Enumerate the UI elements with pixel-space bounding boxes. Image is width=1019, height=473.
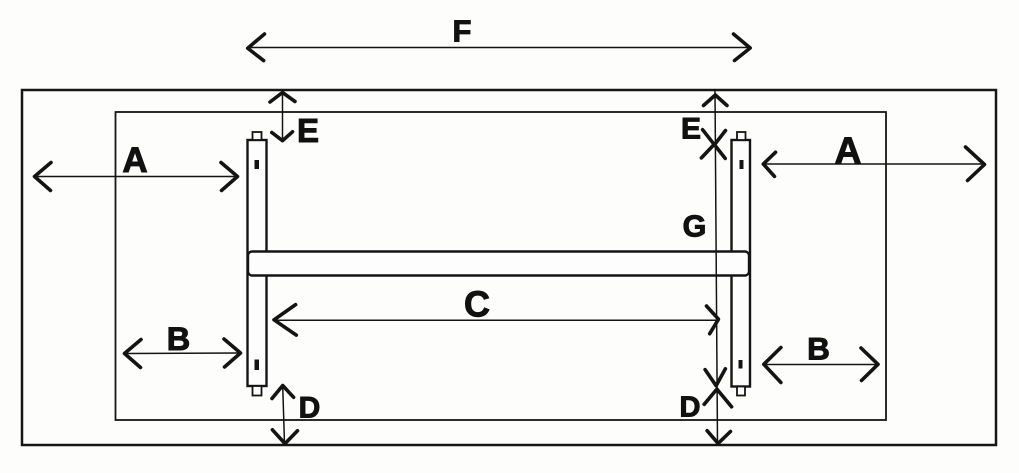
dimension F shaft (248, 47, 750, 49)
dimension E right up arrowhead (704, 95, 728, 106)
dimension C left arrowhead (274, 305, 296, 336)
dimension B right right arrowhead (861, 348, 878, 381)
dimension E left up arrowhead (270, 93, 295, 103)
dimension A right right arrowhead (966, 147, 985, 181)
svg-text:E: E (681, 112, 701, 145)
left rail body (248, 140, 267, 386)
svg-text:E: E (297, 112, 319, 149)
dimension F right arrowhead (734, 34, 751, 61)
dimension B left right arrowhead (224, 339, 241, 367)
dimension C shaft (274, 319, 719, 321)
dimension G down arrowhead crossing (705, 369, 725, 386)
dimension B right left arrowhead (764, 348, 781, 383)
dimension B right shaft (764, 364, 879, 366)
dimension E left down arrowhead (272, 132, 293, 141)
right dimension line shaft for E G D (715, 91, 718, 445)
inner frame rectangle (116, 112, 887, 420)
dimension C right arrowhead (707, 306, 719, 334)
left rail upper slot tick (255, 160, 260, 169)
svg-text:B: B (807, 331, 830, 367)
dimension G up arrowhead crossing (701, 144, 725, 158)
dimension D left shaft (283, 386, 285, 444)
svg-text:A: A (122, 141, 147, 180)
right rail body (732, 140, 751, 387)
dimension D right down arrowhead (707, 431, 730, 444)
dimension E right down arrowhead crossing (703, 130, 726, 145)
dimension A right shaft (763, 163, 986, 165)
left rail lower slot tick (255, 360, 260, 371)
dimension F left arrowhead (248, 34, 265, 61)
right rail lower slot tick (739, 360, 743, 369)
svg-text:D: D (680, 391, 701, 423)
dimension D right up arrowhead crossing (704, 389, 731, 407)
left rail top cap (253, 132, 262, 140)
left rail bottom cap (253, 386, 262, 396)
dimension A right left arrowhead (763, 152, 775, 176)
dimension A left shaft (35, 176, 238, 178)
svg-text:C: C (464, 284, 490, 325)
dimension A left right arrowhead (221, 163, 238, 191)
svg-text:A: A (835, 130, 862, 171)
dimension A left left arrowhead (35, 163, 52, 191)
dimension B left shaft (125, 352, 241, 355)
dimension E left shaft (282, 92, 284, 141)
outer frame rectangle (22, 90, 996, 445)
dimension D left up arrowhead (272, 386, 294, 399)
right rail bottom cap (737, 387, 745, 396)
right rail upper slot tick (740, 160, 744, 169)
dimension B left left arrowhead (125, 340, 142, 368)
svg-text:B: B (167, 321, 190, 357)
dimension D left down arrowhead (272, 430, 297, 444)
crossbar (248, 252, 749, 276)
svg-text:F: F (453, 14, 472, 49)
svg-text:D: D (299, 392, 321, 425)
right rail top cap (737, 132, 746, 140)
svg-text:G: G (683, 210, 707, 244)
